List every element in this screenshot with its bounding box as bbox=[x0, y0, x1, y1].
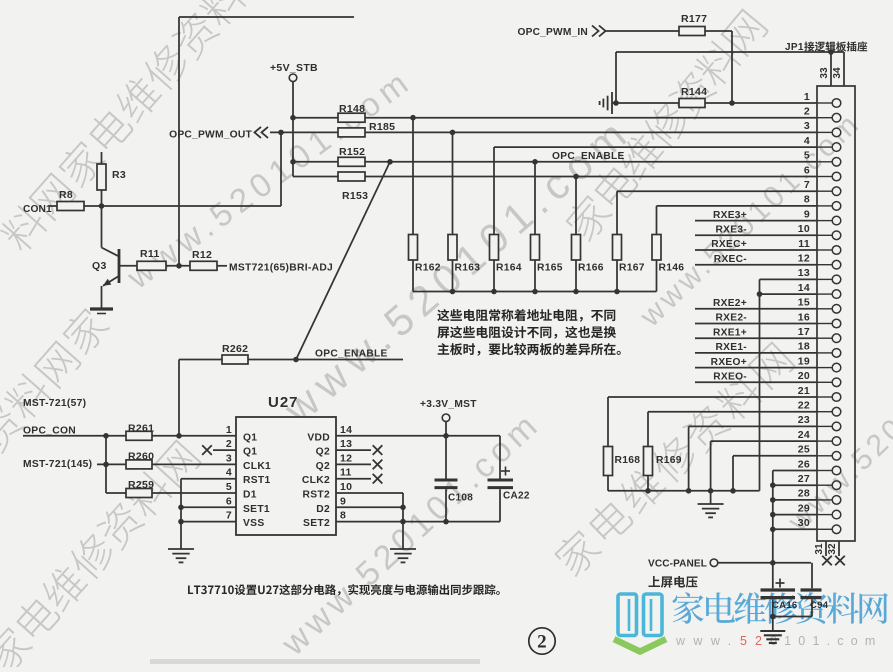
svg-text:R144: R144 bbox=[681, 86, 707, 98]
svg-text:C108: C108 bbox=[448, 493, 473, 504]
svg-text:U27: U27 bbox=[268, 394, 299, 411]
svg-text:OPC_PWM_IN: OPC_PWM_IN bbox=[518, 27, 589, 38]
svg-text:CLK1: CLK1 bbox=[243, 461, 271, 472]
svg-text:23: 23 bbox=[798, 414, 810, 426]
svg-text:R148: R148 bbox=[339, 103, 365, 115]
svg-text:31: 31 bbox=[814, 543, 825, 555]
svg-text:R166: R166 bbox=[578, 263, 604, 274]
svg-text:SET1: SET1 bbox=[243, 504, 270, 515]
svg-text:CA16: CA16 bbox=[772, 600, 798, 611]
svg-text:R12: R12 bbox=[192, 249, 212, 261]
svg-text:R261: R261 bbox=[128, 423, 154, 435]
svg-text:RST2: RST2 bbox=[302, 490, 330, 501]
svg-text:8: 8 bbox=[804, 194, 810, 206]
svg-text:5: 5 bbox=[804, 150, 810, 162]
svg-text:CON1: CON1 bbox=[23, 204, 52, 215]
svg-text:24: 24 bbox=[798, 429, 810, 441]
svg-text:34: 34 bbox=[832, 67, 843, 79]
svg-text:SET2: SET2 bbox=[303, 518, 330, 529]
svg-text:+5V_STB: +5V_STB bbox=[270, 62, 318, 74]
svg-text:22: 22 bbox=[798, 400, 810, 412]
svg-text:OPC_CON: OPC_CON bbox=[23, 426, 76, 437]
svg-text:R165: R165 bbox=[537, 263, 563, 274]
svg-text:10: 10 bbox=[340, 481, 352, 493]
svg-text:RXE2-: RXE2- bbox=[715, 313, 747, 324]
svg-text:R3: R3 bbox=[112, 169, 126, 181]
svg-text:1: 1 bbox=[226, 424, 232, 436]
svg-text:18: 18 bbox=[798, 341, 810, 353]
svg-text:17: 17 bbox=[798, 326, 810, 338]
svg-text:OPC_PWM_OUT: OPC_PWM_OUT bbox=[169, 130, 252, 141]
svg-text:26: 26 bbox=[798, 458, 810, 470]
svg-text:C94: C94 bbox=[810, 600, 829, 611]
svg-text:VSS: VSS bbox=[243, 518, 265, 529]
svg-text:21: 21 bbox=[798, 385, 810, 397]
svg-text:Q1: Q1 bbox=[243, 432, 257, 443]
svg-text:0101.com: 0101.com bbox=[770, 634, 883, 648]
svg-text:12: 12 bbox=[798, 253, 810, 265]
svg-text:6: 6 bbox=[804, 164, 810, 176]
svg-text:VDD: VDD bbox=[307, 432, 330, 443]
svg-text:11: 11 bbox=[340, 467, 352, 479]
svg-text:R168: R168 bbox=[615, 455, 641, 466]
svg-text:R185: R185 bbox=[369, 121, 395, 133]
svg-text:RXEO-: RXEO- bbox=[713, 372, 747, 383]
svg-text:RXE3+: RXE3+ bbox=[713, 210, 747, 221]
svg-text:MST-721(57): MST-721(57) bbox=[23, 398, 86, 409]
svg-text:+3.3V_MST: +3.3V_MST bbox=[420, 399, 477, 410]
svg-text:R259: R259 bbox=[128, 479, 154, 491]
svg-text:R167: R167 bbox=[619, 263, 645, 274]
svg-text:R169: R169 bbox=[656, 455, 682, 466]
svg-text:15: 15 bbox=[798, 297, 810, 309]
svg-text:10: 10 bbox=[798, 223, 810, 235]
svg-text:Q1: Q1 bbox=[243, 447, 257, 458]
svg-text:12: 12 bbox=[340, 452, 352, 464]
svg-text:D2: D2 bbox=[316, 504, 330, 515]
svg-text:3: 3 bbox=[226, 452, 232, 464]
svg-text:3: 3 bbox=[804, 120, 810, 132]
svg-text:OPC_ENABLE: OPC_ENABLE bbox=[315, 349, 388, 360]
svg-text:Q2: Q2 bbox=[316, 447, 330, 458]
svg-text:32: 32 bbox=[827, 543, 838, 555]
svg-text:14: 14 bbox=[340, 424, 352, 436]
svg-text:5: 5 bbox=[226, 481, 232, 493]
svg-text:R162: R162 bbox=[415, 263, 441, 274]
svg-text:29: 29 bbox=[798, 502, 810, 514]
svg-text:4: 4 bbox=[804, 135, 810, 147]
svg-text:2: 2 bbox=[804, 106, 810, 118]
svg-text:CLK2: CLK2 bbox=[302, 475, 330, 486]
svg-text:RXEC+: RXEC+ bbox=[711, 239, 747, 250]
svg-text:25: 25 bbox=[798, 444, 810, 456]
svg-text:R164: R164 bbox=[496, 263, 522, 274]
svg-text:7: 7 bbox=[226, 510, 232, 522]
svg-text:1: 1 bbox=[804, 91, 810, 103]
svg-text:Q2: Q2 bbox=[316, 461, 330, 472]
svg-text:D1: D1 bbox=[243, 490, 257, 501]
svg-text:33: 33 bbox=[819, 67, 830, 79]
svg-text:R260: R260 bbox=[128, 451, 154, 463]
svg-text:RXE3-: RXE3- bbox=[715, 225, 747, 236]
svg-text:R163: R163 bbox=[455, 263, 481, 274]
svg-text:R8: R8 bbox=[59, 189, 73, 201]
svg-text:MST721(65)BRI-ADJ: MST721(65)BRI-ADJ bbox=[229, 263, 333, 274]
svg-text:9: 9 bbox=[340, 495, 346, 507]
svg-text:6: 6 bbox=[226, 495, 232, 507]
svg-text:RXE1-: RXE1- bbox=[715, 342, 747, 353]
svg-text:2: 2 bbox=[226, 438, 232, 450]
svg-text:JP1: JP1 bbox=[785, 42, 804, 53]
svg-text:28: 28 bbox=[798, 488, 810, 500]
svg-text:CA22: CA22 bbox=[503, 491, 530, 502]
svg-text:RXE1+: RXE1+ bbox=[713, 327, 747, 338]
svg-text:VCC-PANEL: VCC-PANEL bbox=[648, 559, 707, 570]
svg-text:13: 13 bbox=[340, 438, 352, 450]
svg-text:RST1: RST1 bbox=[243, 475, 271, 486]
svg-text:R262: R262 bbox=[222, 343, 248, 355]
svg-text:16: 16 bbox=[798, 311, 810, 323]
svg-text:MST-721(145): MST-721(145) bbox=[23, 459, 92, 470]
svg-text:RXEO+: RXEO+ bbox=[711, 357, 747, 368]
svg-text:OPC_ENABLE: OPC_ENABLE bbox=[552, 151, 625, 162]
svg-text:R153: R153 bbox=[342, 190, 368, 202]
svg-text:27: 27 bbox=[798, 473, 810, 485]
svg-text:RXEC-: RXEC- bbox=[714, 254, 747, 265]
svg-text:R11: R11 bbox=[140, 248, 160, 260]
svg-text:20: 20 bbox=[798, 370, 810, 382]
svg-text:2: 2 bbox=[537, 632, 547, 653]
svg-text:www.: www. bbox=[675, 634, 739, 648]
svg-text:R177: R177 bbox=[681, 13, 707, 25]
svg-text:13: 13 bbox=[798, 267, 810, 279]
svg-text:4: 4 bbox=[226, 467, 232, 479]
svg-text:11: 11 bbox=[798, 238, 810, 250]
svg-text:R152: R152 bbox=[339, 146, 365, 158]
svg-text:7: 7 bbox=[804, 179, 810, 191]
svg-text:RXE2+: RXE2+ bbox=[713, 298, 747, 309]
svg-text:14: 14 bbox=[798, 282, 810, 294]
svg-text:Q3: Q3 bbox=[92, 260, 107, 272]
svg-text:19: 19 bbox=[798, 355, 810, 367]
svg-text:9: 9 bbox=[804, 208, 810, 220]
svg-text:R146: R146 bbox=[659, 263, 685, 274]
svg-text:8: 8 bbox=[340, 510, 346, 522]
svg-text:30: 30 bbox=[798, 517, 810, 529]
